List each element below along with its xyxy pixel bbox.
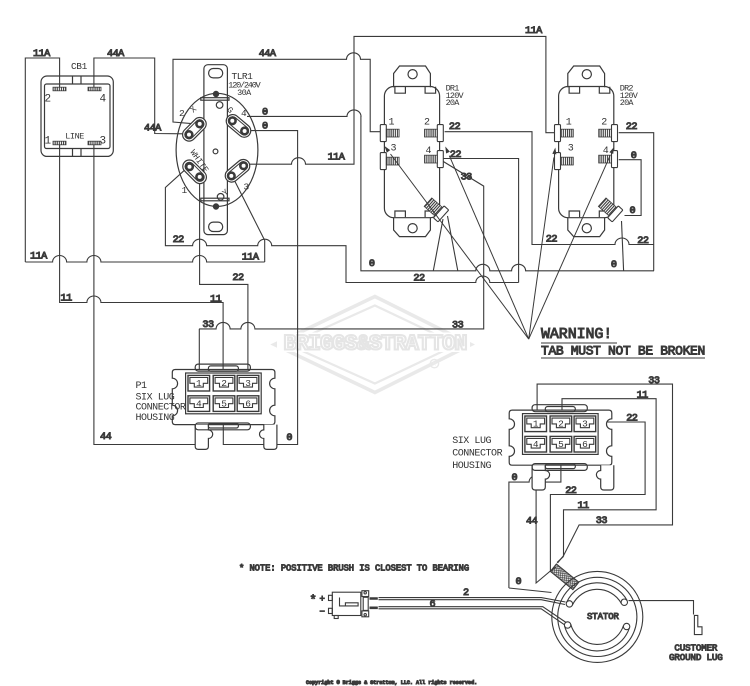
wire 11 CB1-T1 to P1 pin2: [60, 145, 224, 384]
svg-text:2: 2: [601, 117, 607, 128]
wire 0 right-conn pin5: [509, 445, 561, 593]
svg-text:6: 6: [245, 398, 251, 409]
svg-text:0: 0: [262, 107, 268, 118]
svg-text:11: 11: [61, 294, 73, 305]
svg-text:0: 0: [516, 577, 522, 588]
wire 44A CB1-T4 to TLR1 slot2: [94, 58, 184, 134]
svg-text:6: 6: [430, 599, 436, 610]
TLR1 slot 3 (Y): [223, 157, 253, 185]
svg-text:4: 4: [533, 439, 539, 450]
svg-text:TAB MUST NOT BE BROKEN: TAB MUST NOT BE BROKEN: [541, 344, 705, 359]
svg-text:4: 4: [603, 146, 609, 157]
svg-text:30A: 30A: [237, 88, 252, 98]
TLR1 slot 1 (W): [180, 157, 209, 186]
svg-text:4: 4: [196, 398, 202, 409]
svg-text:BRIGGS&STRATTON: BRIGGS&STRATTON: [283, 332, 466, 357]
svg-text:STATOR: STATOR: [587, 612, 620, 622]
svg-text:3: 3: [244, 182, 250, 193]
svg-text:1: 1: [196, 378, 202, 389]
TLR1 slot 4 (G): [224, 112, 254, 140]
svg-text:0: 0: [611, 260, 617, 271]
svg-text:11: 11: [578, 501, 590, 512]
svg-text:44A: 44A: [259, 49, 277, 60]
svg-text:20A: 20A: [446, 98, 461, 108]
connector P1 six lug housing: [172, 364, 277, 449]
wire 0 TLR1 slot4-lower to P1 pin5: [223, 131, 297, 445]
svg-text:44A: 44A: [107, 49, 125, 60]
svg-text:2: 2: [179, 108, 185, 119]
svg-text:44A: 44A: [144, 124, 162, 135]
svg-text:33: 33: [648, 376, 660, 387]
wire 44 CB1-T3 to P1 pin4: [94, 145, 199, 445]
twist-lock receptacle TLR1: [176, 65, 258, 235]
svg-text:5: 5: [221, 398, 227, 409]
svg-text:22: 22: [637, 236, 649, 247]
svg-text:−: −: [320, 607, 325, 617]
svg-text:0: 0: [631, 151, 637, 162]
svg-text:CONNECTOR: CONNECTOR: [452, 449, 502, 460]
svg-text:P1: P1: [136, 381, 148, 392]
svg-text:3: 3: [391, 143, 397, 154]
svg-text:2: 2: [424, 117, 430, 128]
svg-text:22: 22: [546, 235, 558, 246]
duplex receptacle DR1: [384, 66, 439, 237]
svg-text:3: 3: [100, 136, 107, 148]
svg-text:0: 0: [512, 473, 518, 484]
svg-text:11A: 11A: [242, 252, 260, 263]
wire 44 right-conn pin4 down: [536, 445, 554, 583]
svg-text:1: 1: [45, 136, 52, 148]
svg-text:22: 22: [450, 150, 462, 161]
svg-text:44: 44: [526, 517, 538, 528]
svg-text:0: 0: [369, 259, 375, 270]
svg-text:4: 4: [426, 146, 432, 157]
wire 22 TLR1 slot1-lower to P1 pin3: [200, 181, 248, 384]
wire 22 right-conn pin3 loop: [550, 422, 645, 572]
duplex receptacle DR2: [559, 66, 614, 237]
wire 0 DR2-T4 loop: [619, 160, 641, 216]
svg-text:6: 6: [582, 439, 588, 450]
svg-text:1: 1: [566, 117, 572, 128]
wire 22 DR1-T2 to DR2 area: [445, 132, 654, 245]
svg-text:4: 4: [241, 108, 247, 119]
svg-text:CB1: CB1: [71, 61, 88, 72]
svg-text:33: 33: [461, 173, 473, 184]
svg-text:2: 2: [558, 419, 564, 430]
svg-text:HOUSING: HOUSING: [136, 413, 175, 424]
Briggs & Stratton watermark: [274, 297, 471, 393]
svg-text:1: 1: [182, 185, 188, 196]
svg-text:11A: 11A: [328, 153, 346, 164]
wire wire 6 brush to stator: [379, 607, 567, 626]
svg-text:22: 22: [413, 274, 425, 285]
svg-text:2: 2: [221, 378, 227, 389]
svg-text:HOUSING: HOUSING: [452, 461, 491, 472]
svg-text:22: 22: [626, 122, 638, 133]
svg-text:3: 3: [245, 378, 251, 389]
svg-text:1: 1: [533, 419, 539, 430]
svg-text:3: 3: [568, 143, 574, 154]
warning arrows: [391, 154, 529, 339]
svg-text:22: 22: [626, 414, 638, 425]
customer ground lug: [694, 615, 702, 634]
wire 22 DR1-T4 to east run: [443, 159, 518, 283]
svg-text:22: 22: [449, 122, 461, 133]
svg-text:0: 0: [262, 122, 268, 133]
wire 44A TLR1 slot2 to DR1-T1: [173, 53, 381, 132]
wire 11 right-conn pin2 loop: [562, 399, 656, 557]
svg-text:4: 4: [100, 94, 107, 106]
svg-text:0: 0: [630, 206, 636, 217]
svg-text:*: *: [310, 594, 317, 608]
wire 0 TLR1 slot4-upper to ground bus: [247, 110, 654, 271]
wire 11A bottom bus: [25, 256, 264, 263]
svg-text:33: 33: [452, 321, 464, 332]
svg-text:2: 2: [45, 94, 52, 106]
svg-text:44: 44: [100, 432, 112, 443]
svg-text:11A: 11A: [33, 49, 51, 60]
svg-text:22: 22: [232, 273, 244, 284]
circuit breaker CB1: [41, 76, 113, 156]
svg-text:2: 2: [463, 588, 469, 599]
svg-text:11: 11: [210, 295, 222, 306]
brush assembly: [329, 591, 378, 619]
wire 11A CB1-T2 riser: [25, 58, 59, 262]
svg-text:33: 33: [596, 516, 608, 527]
svg-text:11: 11: [637, 391, 649, 402]
wire 0 DR2 green screw down: [622, 221, 624, 271]
stator brush hatch: [550, 564, 579, 590]
svg-text:WARNING!: WARNING!: [541, 326, 612, 343]
svg-text:* NOTE: POSITIVE BRUSH IS CLOS: * NOTE: POSITIVE BRUSH IS CLOSEST TO BEA…: [239, 564, 469, 574]
svg-text:Copyright © Briggs & Stratton,: Copyright © Briggs & Stratton, LLC. All …: [306, 679, 477, 686]
wire 33 bus to P1 pin1: [199, 162, 484, 385]
wire 33 right-conn pin1 loop: [537, 384, 672, 563]
svg-text:11A: 11A: [30, 252, 48, 263]
svg-text:+: +: [320, 595, 325, 605]
TLR1 slot 2 (X): [180, 115, 209, 144]
svg-text:22: 22: [173, 235, 185, 246]
svg-text:20A: 20A: [620, 98, 635, 108]
svg-text:CONNECTOR: CONNECTOR: [136, 403, 186, 414]
wire stator to customer ground lug: [629, 601, 694, 615]
connector six lug housing (right): [509, 405, 614, 490]
svg-text:22: 22: [565, 486, 577, 497]
wire wire 2 brush to stator: [379, 598, 566, 605]
svg-text:0: 0: [286, 433, 292, 444]
svg-text:SIX LUG: SIX LUG: [452, 436, 491, 447]
wire 22 DR2-T2 down: [619, 133, 654, 271]
svg-text:5: 5: [558, 439, 564, 450]
wire 11A bus up-branch to TLR1 slot3: [234, 179, 265, 262]
wire 0 DR1 green screw pair: [433, 216, 458, 271]
svg-text:33: 33: [202, 320, 214, 331]
wire 11A TLR1 slot3 to DR2-T1: [248, 36, 556, 164]
svg-text:1: 1: [389, 117, 395, 128]
svg-text:GROUND LUG: GROUND LUG: [669, 652, 723, 663]
wire 22 TLR1 slot1-upper run: [165, 168, 518, 282]
wire 22/11 funnel: [550, 557, 563, 572]
svg-text:LINE: LINE: [65, 132, 84, 142]
svg-text:3: 3: [582, 419, 588, 430]
svg-text:11A: 11A: [525, 26, 543, 37]
